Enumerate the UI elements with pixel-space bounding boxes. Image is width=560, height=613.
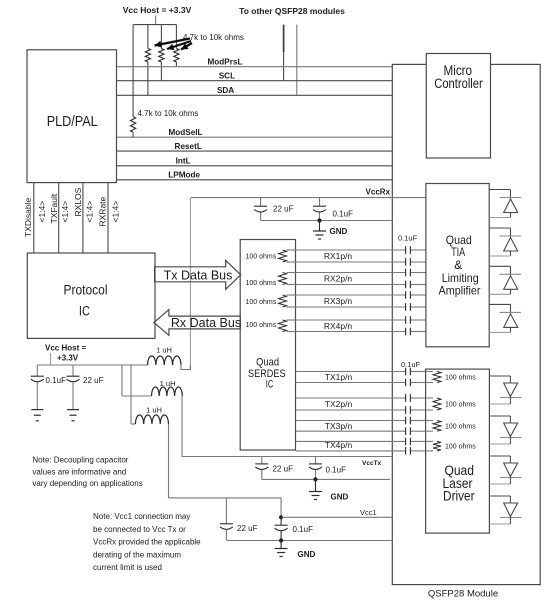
inductor L2 1uH <box>152 387 183 396</box>
capacitor RX4p coupling <box>406 316 411 324</box>
laser diode LD4 <box>489 496 521 524</box>
svg-text:1 uH: 1 uH <box>146 406 162 415</box>
svg-text:RX4p/n: RX4p/n <box>324 321 353 331</box>
label RX3p/n <box>324 296 353 306</box>
resistor pullup SCL <box>159 49 164 63</box>
wire R-ModSelL to line <box>132 132 134 137</box>
wire Vcc Host rail (left) <box>37 364 147 366</box>
pin label <1:4> #8 <box>110 201 120 223</box>
wire VccRx vertical to L1 <box>189 198 191 370</box>
label LPMode <box>168 171 200 180</box>
label Quad Laser Driver <box>443 463 475 503</box>
wire VccTx gnd rail <box>262 478 390 480</box>
wire RX4n line <box>296 331 426 333</box>
wire SDA line <box>117 94 393 96</box>
wire PLD-Protocol pin 1 <box>33 183 35 253</box>
label 22 uF (Vcc1) <box>237 524 258 533</box>
laser diode LD2 <box>489 416 521 444</box>
wire Vcc Host stub (left) <box>50 353 52 365</box>
wire VccRx rail <box>191 197 426 199</box>
svg-text:Protocol: Protocol <box>64 283 108 298</box>
wire RX2 termination stubs <box>287 273 296 285</box>
wire RX3p line <box>296 294 426 296</box>
label 100 ohms RX3 <box>246 299 277 306</box>
junction dot VccTx gnd <box>313 477 317 481</box>
pin label TXFault #3 <box>49 193 59 223</box>
label SDA <box>217 86 234 95</box>
svg-text:0.1uF: 0.1uF <box>326 466 347 475</box>
svg-text:IntL: IntL <box>176 157 191 166</box>
wire TX3 termination stubs <box>426 421 433 432</box>
photodiode D2 <box>489 228 521 256</box>
svg-text:100 ohms: 100 ohms <box>246 322 277 329</box>
wire Vcc pullup bus bar <box>133 24 176 26</box>
wire RX4 termination stubs <box>287 320 296 332</box>
svg-text:be connected to Vcc Tx or: be connected to Vcc Tx or <box>93 525 186 534</box>
svg-text:0.1uF: 0.1uF <box>293 525 314 534</box>
wire TX3n line <box>296 430 426 432</box>
wire TX2 termination stubs <box>426 398 433 410</box>
svg-text:4.7k to 10k ohms: 4.7k to 10k ohms <box>183 33 244 42</box>
capacitor 22uF (Vcc1) <box>220 498 233 541</box>
label 100 ohms RX2 <box>246 280 277 287</box>
svg-text:<1:4>: <1:4> <box>60 201 70 223</box>
outer box QSFP28 Module <box>392 64 540 584</box>
wire RX1n line <box>296 261 426 263</box>
bus arrow Rx Data Bus <box>154 310 240 336</box>
label 100 ohms TX3 <box>445 423 476 430</box>
wire VccTx rail <box>182 456 392 458</box>
label IntL <box>176 157 191 166</box>
wire Vcc1 line <box>281 516 392 518</box>
IC Micro Controller box <box>426 54 490 159</box>
wire RX2n line <box>296 284 426 286</box>
pin label RXRate #7 <box>98 196 108 226</box>
svg-text:TX2p/n: TX2p/n <box>325 399 353 409</box>
label Rx Data Bus <box>171 316 241 330</box>
wire R-ModPrsL to ModPrsL line <box>175 62 177 67</box>
svg-text:1 uH: 1 uH <box>156 345 172 354</box>
capacitor TX4p coupling <box>406 438 411 446</box>
svg-text:100 ohms: 100 ohms <box>445 402 476 409</box>
wire ModPrsL line <box>117 66 393 68</box>
capacitor TX3n coupling <box>406 427 411 435</box>
power rail Vcc Host label (top) <box>123 5 192 15</box>
label 1 uH (L2) <box>160 379 176 388</box>
wire L2 to VccTx rail <box>181 396 183 457</box>
label SCL <box>219 72 235 81</box>
wire RX3n line <box>296 306 426 308</box>
svg-text:RX1p/n: RX1p/n <box>324 251 353 261</box>
photodiode D1 <box>489 190 521 218</box>
label 0.1uF (VccTx) <box>326 466 347 475</box>
capacitor 0.1uF (Vcc1) <box>275 517 288 540</box>
svg-text:4.7k to 10k ohms: 4.7k to 10k ohms <box>138 109 199 118</box>
label ResetL <box>175 142 202 151</box>
label 100 ohms RX4 <box>246 322 277 329</box>
svg-text:Tx Data Bus: Tx Data Bus <box>164 268 233 282</box>
label Micro Controller <box>434 63 483 91</box>
IC Quad Laser Driver box <box>426 369 490 533</box>
svg-text:Note: Decoupling capacitor: Note: Decoupling capacitor <box>32 456 128 465</box>
label ModPrsL <box>207 58 242 67</box>
wire RX4p line <box>296 319 426 321</box>
svg-text:RX2p/n: RX2p/n <box>324 274 353 284</box>
svg-text:current limit is used: current limit is used <box>93 563 162 572</box>
junction dot VccRx gnd <box>317 218 321 222</box>
label 4.7k to 10k ohms (ModSelL) <box>138 109 199 118</box>
label GND (VccRx) <box>330 227 348 236</box>
wire RX1 termination stubs <box>287 250 296 262</box>
label 100 ohms TX2 <box>445 402 476 409</box>
svg-text:PLD/PAL: PLD/PAL <box>47 113 98 130</box>
wire L3 down <box>168 424 170 498</box>
pin label RXLOS #5 <box>73 187 83 216</box>
label 0.1uF (Vcc1) <box>293 525 314 534</box>
laser diode LD3 <box>489 456 521 484</box>
svg-text:TX4p/n: TX4p/n <box>325 440 353 450</box>
svg-text:VccTx: VccTx <box>362 460 382 467</box>
label Protocol IC <box>64 283 108 319</box>
svg-text:ModPrsL: ModPrsL <box>207 58 242 67</box>
label TX3p/n <box>325 421 353 431</box>
photodiode D4 <box>489 304 521 332</box>
label 0.1uF (TX caps) <box>401 360 421 369</box>
laser diode LD1 <box>489 376 521 404</box>
wire PLD-Protocol pin 4 <box>107 183 109 253</box>
svg-text:VccRx provided the applicable: VccRx provided the applicable <box>93 538 201 547</box>
label +3.3V (left) <box>57 354 79 363</box>
label TX4p/n <box>325 440 353 450</box>
svg-text:100 ohms: 100 ohms <box>445 444 476 451</box>
svg-text:22 uF: 22 uF <box>83 376 104 385</box>
inductor L1 1uH <box>148 356 182 365</box>
label 4.7k to 10k ohms (top) <box>183 33 244 42</box>
label PLD/PAL <box>47 113 98 130</box>
wire ModSelL line <box>117 136 393 138</box>
photodiode D3 <box>489 266 521 294</box>
wire to-other SDA drop <box>296 25 298 96</box>
svg-text:0.1uF: 0.1uF <box>333 209 354 218</box>
svg-text:Vcc Host =: Vcc Host = <box>45 344 86 353</box>
wire pullup drop 1 <box>132 25 134 117</box>
wire TX2p line <box>296 397 426 399</box>
label 100 ohms TX1 <box>445 375 476 382</box>
svg-text:<1:4>: <1:4> <box>110 201 120 223</box>
pin label TXDisable #1 <box>23 198 33 237</box>
label 100 ohms TX4 <box>445 444 476 451</box>
svg-text:TIA: TIA <box>451 245 465 259</box>
capacitor TX1p coupling <box>406 368 411 376</box>
svg-text:22 uF: 22 uF <box>237 524 258 533</box>
capacitor RX3n coupling <box>406 303 411 311</box>
capacitor RX4n coupling <box>406 328 411 336</box>
svg-text:SCL: SCL <box>219 72 235 81</box>
wire R-SCL to SCL line <box>160 62 162 81</box>
label 100 ohms RX1 <box>246 254 277 261</box>
resistor 100 ohms RX1 termination <box>279 250 287 262</box>
wire RX3 termination stubs <box>287 295 296 307</box>
svg-text:<1:4>: <1:4> <box>37 201 47 223</box>
label RX2p/n <box>324 274 353 284</box>
capacitor 22uF (Vcc Host) <box>67 365 80 410</box>
svg-text:Driver: Driver <box>443 489 475 504</box>
label To other QSFP28 modules <box>239 6 345 16</box>
capacitor RX3p coupling <box>406 291 411 299</box>
svg-text:TXDisable: TXDisable <box>23 198 33 237</box>
label QSFP28 Module <box>428 589 498 600</box>
svg-text:&: & <box>454 258 462 272</box>
wire TX2n line <box>296 409 426 411</box>
wire TX3p line <box>296 420 426 422</box>
wire TX4p line <box>296 440 426 442</box>
svg-text:GND: GND <box>331 493 349 502</box>
wire TX1n line <box>296 382 426 384</box>
label RX4p/n <box>324 321 353 331</box>
svg-text:TX3p/n: TX3p/n <box>325 421 353 431</box>
resistor 100 ohms TX2 termination <box>433 398 441 410</box>
label Quad TIA & Limiting Amplifier <box>439 233 481 297</box>
label Quad SERDES IC <box>248 356 286 390</box>
label Vcc1 <box>360 508 377 517</box>
label 22 uF (VccRx) <box>273 204 294 213</box>
svg-text:100 ohms: 100 ohms <box>246 280 277 287</box>
wire PLD-Protocol pin 2 <box>58 183 60 253</box>
wire Vcc1 horizontal feed <box>169 497 282 499</box>
resistor 100 ohms RX4 termination <box>279 320 287 332</box>
label 1 uH (L3) <box>146 406 162 415</box>
resistor 100 ohms TX4 termination <box>433 441 441 451</box>
wire LPMode line <box>117 179 393 181</box>
ground (Vcc1) <box>275 541 288 557</box>
resistor pullup ModPrsL <box>174 49 179 63</box>
resistor pullup ModSelL <box>131 117 136 133</box>
svg-text:100 ohms: 100 ohms <box>445 423 476 430</box>
wire VccRx gnd rail <box>261 220 393 222</box>
wire R-SDA to SDA line <box>147 62 149 95</box>
label 0.1uF (VccRx) <box>333 209 354 218</box>
wire pullup drop 3 <box>160 25 162 49</box>
capacitor TX4n coupling <box>406 447 411 455</box>
svg-text:100 ohms: 100 ohms <box>246 299 277 306</box>
svg-text:VccRx: VccRx <box>366 187 391 196</box>
svg-text:100 ohms: 100 ohms <box>445 375 476 382</box>
svg-text:Vcc1: Vcc1 <box>360 508 377 517</box>
svg-text:TXFault: TXFault <box>49 193 59 223</box>
capacitor 0.1uF (VccTx) <box>309 457 322 480</box>
svg-text:ModSelL: ModSelL <box>168 128 202 137</box>
capacitor 22uF (VccTx) <box>255 457 268 480</box>
svg-text:GND: GND <box>330 227 348 236</box>
svg-text:values are informative and: values are informative and <box>32 467 126 476</box>
note decoupling capacitors <box>32 456 142 489</box>
wire TX1 termination stubs <box>426 372 433 383</box>
resistor 100 ohms TX3 termination <box>433 421 441 432</box>
svg-text:Rx Data Bus: Rx Data Bus <box>171 316 241 330</box>
svg-text:+3.3V: +3.3V <box>57 354 79 363</box>
svg-text:vary depending on applications: vary depending on applications <box>32 479 142 488</box>
wire tap to L3 <box>130 365 132 424</box>
wire L2 lead <box>122 395 152 397</box>
capacitor 0.1uF (VccRx) <box>313 198 326 221</box>
capacitor RX1p coupling <box>406 246 411 254</box>
svg-text:IC: IC <box>79 303 90 318</box>
capacitor 0.1uF (Vcc Host) <box>31 365 44 410</box>
label Vcc Host = (left) <box>45 344 86 353</box>
svg-text:RXRate: RXRate <box>98 196 108 226</box>
label RX1p/n <box>324 251 353 261</box>
pin label <1:4> #4 <box>60 201 70 223</box>
capacitor 22uF (VccRx) <box>254 198 267 221</box>
svg-text:ResetL: ResetL <box>175 142 202 151</box>
label 0.1uF (RX caps) <box>398 234 418 243</box>
capacitor RX2n coupling <box>406 281 411 289</box>
resistor 100 ohms TX1 termination <box>433 372 441 383</box>
svg-text:SDA: SDA <box>217 86 234 95</box>
wire to-other SCL drop <box>283 25 285 81</box>
wire L1 to VccRx vert <box>181 365 190 370</box>
svg-text:Amplifier: Amplifier <box>439 283 481 297</box>
label GND (Vcc1) <box>298 550 316 559</box>
svg-text:1 uH: 1 uH <box>160 379 176 388</box>
svg-text:QSFP28 Module: QSFP28 Module <box>428 589 498 600</box>
wire PLD-Protocol pin 3 <box>82 183 84 253</box>
wire TX4n line <box>296 450 426 452</box>
capacitor TX1n coupling <box>406 379 411 387</box>
svg-text:derating of the maximum: derating of the maximum <box>93 550 181 559</box>
wire ResetL line <box>117 150 393 152</box>
svg-text:IC: IC <box>266 378 274 390</box>
capacitor TX3p coupling <box>406 417 411 425</box>
svg-text:0.1uF: 0.1uF <box>46 376 67 385</box>
inductor L3 1uH <box>135 415 168 424</box>
label 0.1uF (Vcc Host) <box>46 376 67 385</box>
wire Vcc Host stub <box>155 16 157 25</box>
svg-text:Vcc Host = +3.3V: Vcc Host = +3.3V <box>123 5 192 15</box>
svg-text:To other QSFP28 modules: To other QSFP28 modules <box>239 6 345 16</box>
wire IntL line <box>117 165 393 167</box>
label 22 uF (Vcc Host) <box>83 376 104 385</box>
svg-text:22 uF: 22 uF <box>273 204 294 213</box>
note Vcc1 connection <box>93 512 201 572</box>
arrow to resistor 1 <box>155 39 191 48</box>
resistor pullup SDA <box>145 49 150 63</box>
IC PLD/PAL box <box>27 50 117 183</box>
wire pullup drop 4 <box>175 25 177 49</box>
label VccRx <box>366 187 391 196</box>
wire TX4 termination stubs <box>426 441 433 451</box>
svg-text:Controller: Controller <box>434 76 483 91</box>
svg-text:GND: GND <box>298 550 316 559</box>
svg-text:LPMode: LPMode <box>168 171 200 180</box>
wire L3 lead <box>131 423 135 425</box>
wire SCL line <box>117 80 393 82</box>
wire pullup drop 2 <box>147 25 149 49</box>
IC Protocol box <box>27 253 155 338</box>
label TX1p/n <box>325 372 353 382</box>
svg-text:100 ohms: 100 ohms <box>246 254 277 261</box>
wire tap to L2 <box>121 365 123 396</box>
IC Quad TIA box <box>426 184 489 347</box>
capacitor TX2n coupling <box>406 406 411 414</box>
wire TX1p line <box>296 371 426 373</box>
arrow to resistor 2 <box>167 41 191 50</box>
svg-text:<1:4>: <1:4> <box>84 201 94 223</box>
label ModSelL <box>168 128 202 137</box>
svg-text:Note: Vcc1 connection may: Note: Vcc1 connection may <box>93 512 190 521</box>
resistor 100 ohms RX3 termination <box>279 295 287 307</box>
label 22 uF (VccTx) <box>273 465 294 474</box>
ground (VccTx) <box>309 479 322 499</box>
wire Vcc1 gnd rail <box>226 540 392 542</box>
svg-text:Quad: Quad <box>256 356 279 368</box>
junction dot Vcc1 gnd <box>279 538 283 542</box>
ground (VccRx) <box>313 221 326 240</box>
svg-text:RX3p/n: RX3p/n <box>324 296 353 306</box>
pin label <1:4> #2 <box>37 201 47 223</box>
capacitor RX2p coupling <box>406 269 411 277</box>
arrow to resistor 3 <box>181 43 192 50</box>
resistor 100 ohms RX2 termination <box>279 273 287 285</box>
capacitor TX2p coupling <box>406 394 411 402</box>
bus arrow Tx Data Bus <box>155 260 241 289</box>
wire RX2p line <box>296 272 426 274</box>
capacitor RX1n coupling <box>406 258 411 266</box>
ground (Vcc Host 22uF) <box>67 410 79 421</box>
label VccTx <box>362 460 382 467</box>
svg-text:0.1uF: 0.1uF <box>398 234 418 243</box>
svg-text:TX1p/n: TX1p/n <box>325 372 353 382</box>
svg-text:22 uF: 22 uF <box>273 465 294 474</box>
label GND (VccTx) <box>331 493 349 502</box>
svg-text:0.1uF: 0.1uF <box>401 360 421 369</box>
svg-text:RXLOS: RXLOS <box>73 187 83 216</box>
pin label <1:4> #6 <box>84 201 94 223</box>
IC Quad SERDES box <box>240 240 295 451</box>
label TX2p/n <box>325 399 353 409</box>
wire Vcc1 vertical <box>280 498 282 517</box>
ground (Vcc Host 0.1uF) <box>31 410 43 421</box>
wire RX1p line <box>296 249 426 251</box>
label Tx Data Bus <box>164 268 233 282</box>
junction dot Vcc1 top <box>279 515 283 519</box>
label 1 uH (L1) <box>156 345 172 354</box>
